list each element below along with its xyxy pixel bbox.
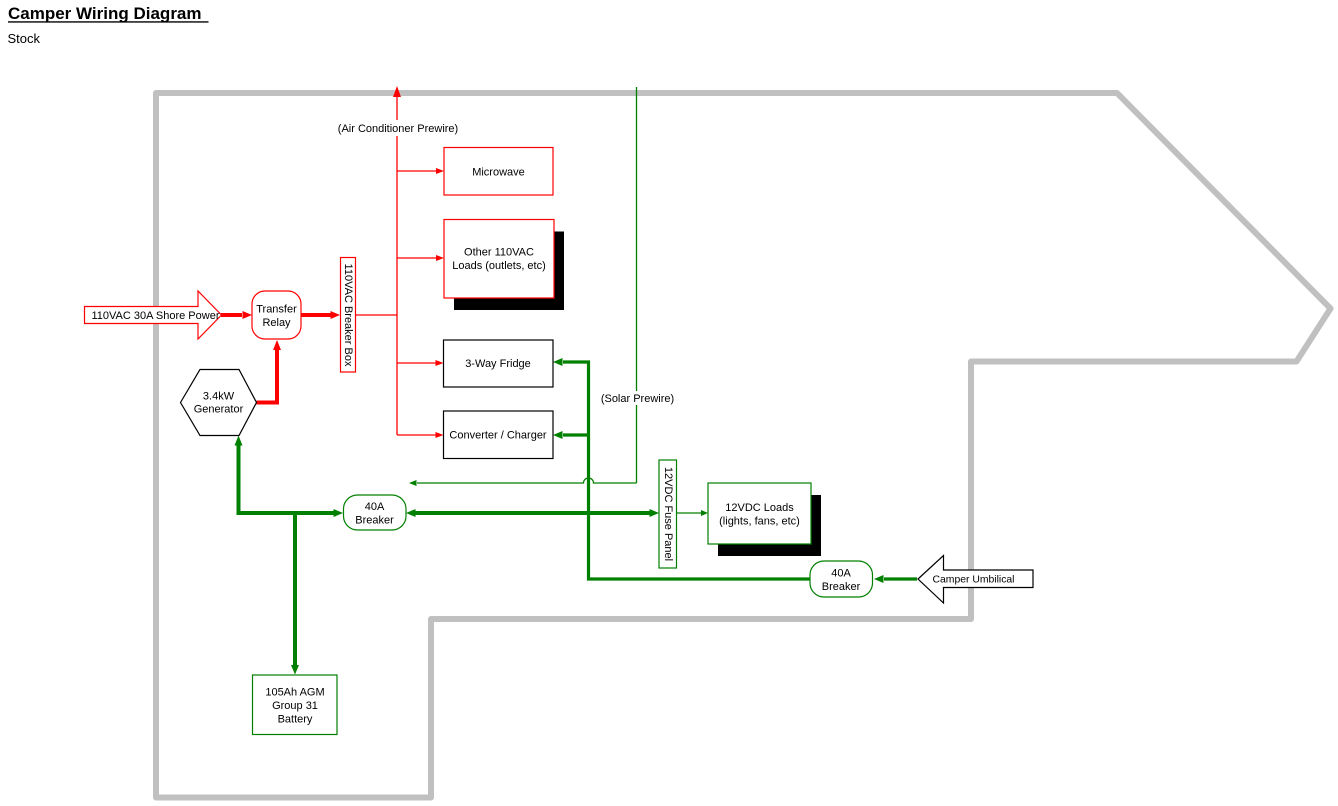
svg-text:Stock: Stock xyxy=(8,31,41,46)
wire: breaker box to trunk xyxy=(356,314,397,316)
battery: 105Ah AGM Group 31 xyxy=(253,675,338,735)
title: Camper Wiring Diagram xyxy=(8,4,209,23)
svg-text:Microwave: Microwave xyxy=(472,167,525,179)
svg-text:Loads (outlets, etc): Loads (outlets, etc) xyxy=(452,260,546,272)
svg-text:(lights, fans, etc): (lights, fans, etc) xyxy=(719,516,800,528)
transfer relay U1 xyxy=(252,291,301,339)
wire: green thin fuse panel to 12VDC loads xyxy=(677,512,702,514)
svg-text:12VDC Loads: 12VDC Loads xyxy=(725,502,794,514)
arrowhead into 3-Way Fridge right edge xyxy=(553,358,563,366)
label: (Air Conditioner Prewire) xyxy=(336,121,460,135)
wire: branch to Other 110VAC Loads xyxy=(397,257,437,259)
generator G1: 3.4kW Generator xyxy=(181,370,257,436)
svg-text:Camper Umbilical: Camper Umbilical xyxy=(933,575,1015,586)
12VDC fuse panel xyxy=(659,460,677,568)
svg-text:40A: 40A xyxy=(365,501,385,513)
shore power arrow: 110VAC 30A Shore Power xyxy=(85,291,222,339)
label: (Solar Prewire) xyxy=(597,391,678,405)
svg-text:Camper Wiring Diagram: Camper Wiring Diagram xyxy=(8,4,202,23)
wire: green umbilical to 40A breaker 2 xyxy=(884,577,917,580)
3-way fridge box xyxy=(444,340,554,387)
svg-text:Group 31: Group 31 xyxy=(272,700,318,712)
40A breaker B1 xyxy=(344,495,407,530)
svg-text:110VAC Breaker Box: 110VAC Breaker Box xyxy=(342,264,354,367)
svg-text:Other 110VAC: Other 110VAC xyxy=(464,247,534,259)
arrowhead into Converter/Charger right edge xyxy=(553,431,563,439)
svg-text:Battery: Battery xyxy=(278,713,313,725)
wire: solar prewire thin green vertical xyxy=(636,87,638,483)
svg-text:12VDC Fuse Panel: 12VDC Fuse Panel xyxy=(662,467,674,561)
svg-text:3-Way Fridge: 3-Way Fridge xyxy=(465,358,531,370)
wire: green thick vertical x=588 from breaker2 up to fridge, with converter branch xyxy=(563,362,810,579)
wire: green thick junction to 40A breaker xyxy=(237,511,335,515)
wire: branch to Microwave xyxy=(397,170,437,172)
wire: solar prewire horizontal with hop over thick line xyxy=(417,478,637,483)
wire: green thick 40A breaker to 12VDC fuse panel (arrows both ends) xyxy=(414,511,651,515)
converter / charger box xyxy=(444,411,554,459)
svg-text:3.4kW: 3.4kW xyxy=(203,391,235,403)
svg-text:Converter / Charger: Converter / Charger xyxy=(449,430,547,442)
wire: green thick junction down to battery xyxy=(293,511,297,665)
svg-text:(Solar Prewire): (Solar Prewire) xyxy=(601,393,674,405)
svg-text:Relay: Relay xyxy=(262,317,291,329)
wire: red thick shore power to transfer relay xyxy=(221,313,242,317)
wire: green thick junction up to generator xyxy=(237,445,241,513)
wire: red thick generator to transfer relay xyxy=(257,350,278,403)
110VAC breaker box xyxy=(341,258,356,373)
microwave box xyxy=(444,148,553,196)
other 110VAC loads box (with shadow) xyxy=(444,220,564,311)
svg-text:105Ah AGM: 105Ah AGM xyxy=(265,686,324,698)
svg-text:Breaker: Breaker xyxy=(822,581,861,593)
40A breaker B2 xyxy=(810,561,873,597)
camper body outline xyxy=(156,93,1331,798)
svg-text:40A: 40A xyxy=(831,568,851,580)
svg-text:Breaker: Breaker xyxy=(355,515,394,527)
camper umbilical arrow xyxy=(918,556,1033,604)
wire: red trunk vertical with AC prewire arrow at top xyxy=(393,86,401,435)
wire: branch to 3-Way Fridge xyxy=(397,362,436,364)
svg-text:Generator: Generator xyxy=(194,404,244,416)
wire: branch to Converter/Charger xyxy=(397,434,436,436)
svg-text:(Air Conditioner Prewire): (Air Conditioner Prewire) xyxy=(338,123,458,135)
svg-text:110VAC 30A Shore Power: 110VAC 30A Shore Power xyxy=(91,310,219,322)
arrowhead solar prewire end xyxy=(409,480,417,486)
12VDC loads box (with shadow) xyxy=(708,483,821,556)
wire: red thick transfer relay to breaker box xyxy=(301,313,331,317)
svg-text:Transfer: Transfer xyxy=(256,304,297,316)
